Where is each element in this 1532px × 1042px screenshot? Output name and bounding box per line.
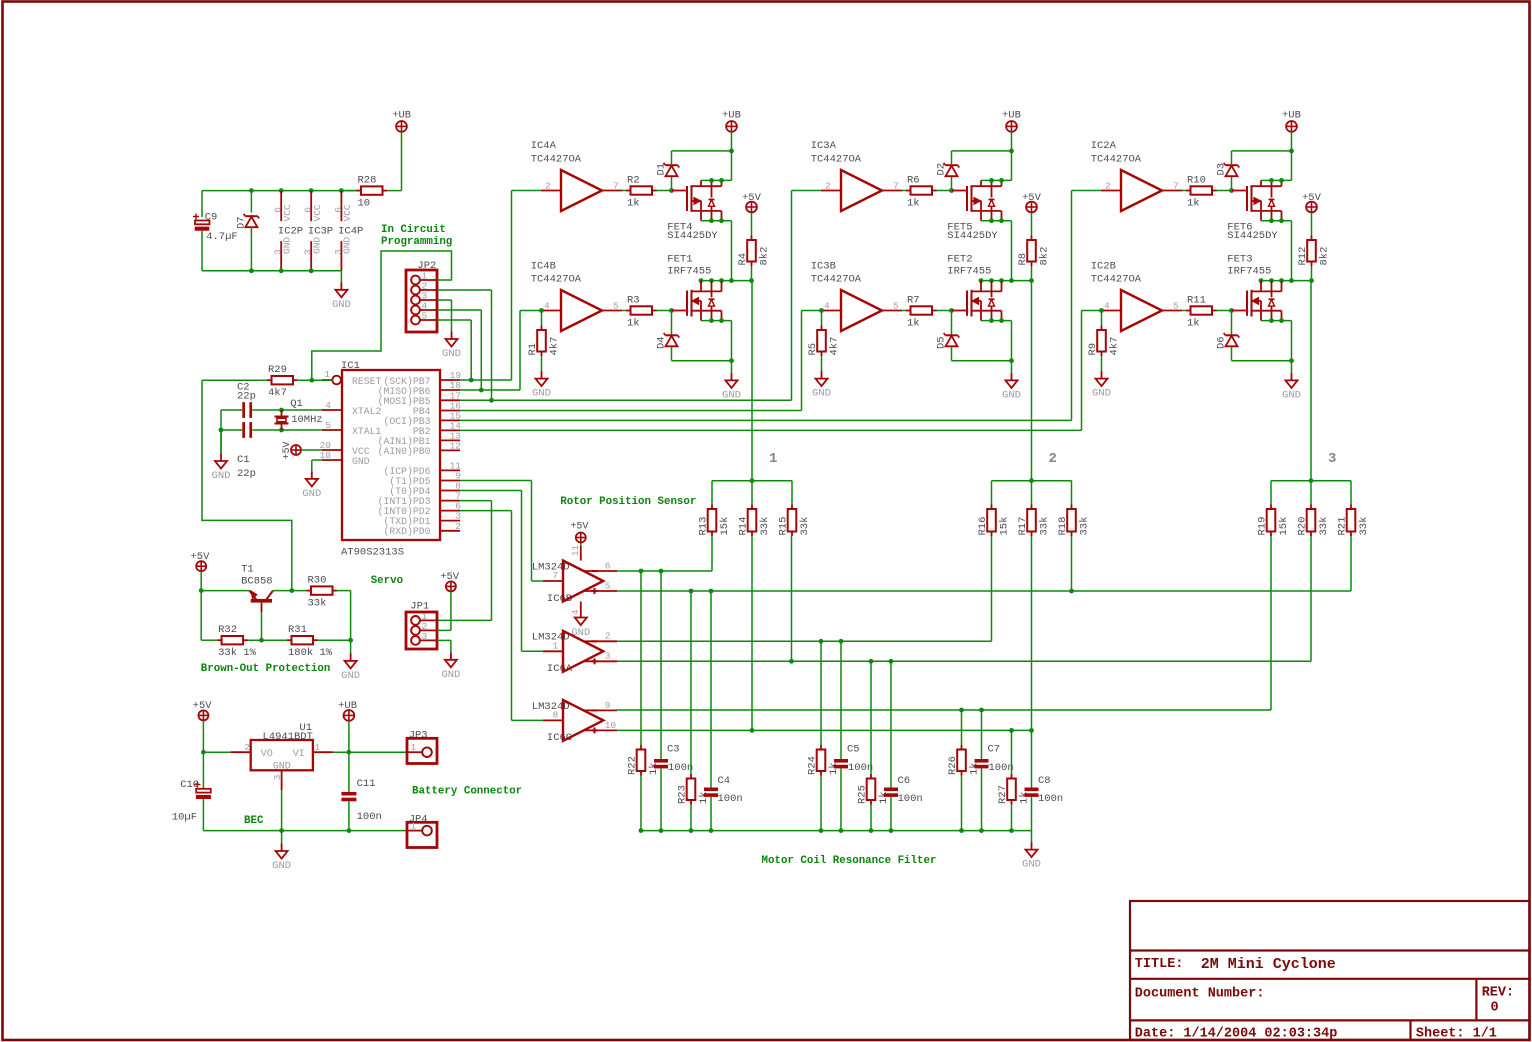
- node gate lower IC3B: [949, 308, 954, 313]
- ground R9: [1092, 371, 1111, 400]
- svg-text:33k: 33k: [799, 517, 811, 536]
- svg-text:4.7µF: 4.7µF: [206, 231, 238, 243]
- svg-text:0: 0: [1491, 1001, 1499, 1016]
- wire filter ground rail: [639, 828, 1032, 833]
- svg-text:6: 6: [605, 560, 611, 571]
- wire pin7 to JP1 pin1: [437, 501, 492, 621]
- wire T1 base to divider: [259, 612, 264, 643]
- svg-text:R6: R6: [907, 174, 920, 186]
- ground FET3: [1282, 373, 1301, 402]
- wire JP2 pin1 to RESET net: [312, 251, 452, 380]
- svg-text:VO: VO: [261, 749, 273, 760]
- svg-text:D3: D3: [1216, 163, 1228, 176]
- wire IC6B inverting input net pin6: [617, 536, 712, 573]
- svg-text:GND: GND: [1092, 388, 1111, 400]
- resistor R29 4k7: [202, 364, 332, 399]
- wire phase mid rail: [699, 278, 754, 283]
- svg-text:VI: VI: [293, 749, 305, 760]
- svg-text:R24: R24: [807, 756, 819, 775]
- svg-text:1: 1: [553, 640, 559, 651]
- wire C9/D7 to bottom rail: [202, 227, 251, 271]
- svg-text:2: 2: [1049, 451, 1057, 467]
- wire U1 VI to JP3: [333, 750, 407, 755]
- ground BEC: [272, 831, 291, 872]
- svg-text:4: 4: [325, 400, 331, 411]
- capacitor C4 100n: [704, 591, 743, 831]
- label Motor Coil Resonance Filter: [762, 855, 937, 867]
- svg-text:D2: D2: [936, 163, 948, 176]
- label Brown-Out Protection: [201, 663, 331, 675]
- svg-text:GND: GND: [1002, 389, 1021, 401]
- resistor R23 1k: [677, 591, 711, 831]
- ground JP1: [441, 652, 460, 681]
- capacitor C9 4.7uF: [193, 211, 238, 243]
- svg-text:FET3: FET3: [1227, 253, 1252, 265]
- svg-text:2: 2: [545, 181, 551, 192]
- resistor R13 15k: [698, 505, 732, 537]
- title text Sheet: 1/1: [1416, 1027, 1497, 1042]
- svg-text:1: 1: [315, 742, 321, 753]
- svg-text:3: 3: [273, 249, 284, 255]
- wire U1 GND pin3 to rail: [279, 790, 284, 833]
- wire PB2 net pin14 to IC2B: [460, 311, 1101, 431]
- transistor FET1 IRF7455 n-channel: [667, 253, 721, 320]
- node input IC3B: [819, 308, 824, 313]
- svg-text:IRF7455: IRF7455: [667, 266, 711, 278]
- power +UB FET4: [722, 110, 741, 151]
- svg-text:R30: R30: [308, 574, 327, 586]
- svg-text:GND: GND: [212, 470, 231, 482]
- title block outline: [1130, 901, 1530, 1040]
- resistor R3 1k: [622, 294, 672, 329]
- resistor R5 4k7 input pulldown: [807, 311, 841, 372]
- gate driver IC3B TC4427OA: [811, 261, 902, 331]
- svg-text:GND: GND: [341, 670, 360, 682]
- wire D5 to ground rail: [952, 358, 1014, 372]
- transistor FET2 IRF7455 n-channel: [947, 253, 1001, 320]
- resistor R7 1k: [902, 294, 952, 329]
- capacitor C3 100n: [654, 571, 693, 831]
- label phase 3: [1328, 451, 1336, 467]
- resistor R12 8k2: [1297, 236, 1331, 281]
- svg-text:(AIN0)PB0: (AIN0)PB0: [378, 446, 431, 457]
- gate driver IC3A TC4427OA: [811, 140, 902, 211]
- svg-text:REV:: REV:: [1482, 986, 1514, 1001]
- svg-text:1k: 1k: [1019, 791, 1031, 804]
- svg-text:R16: R16: [977, 517, 989, 536]
- svg-text:+5V: +5V: [570, 521, 588, 532]
- svg-text:Brown-Out Protection: Brown-Out Protection: [201, 663, 331, 675]
- transistor FET4 SI4425DY p-channel: [667, 180, 721, 242]
- svg-text:33k 1%: 33k 1%: [218, 647, 257, 659]
- ground R5: [812, 371, 831, 400]
- svg-text:9: 9: [605, 700, 611, 711]
- wire +UB rail FET4: [672, 149, 734, 181]
- svg-text:R19: R19: [1257, 517, 1269, 536]
- crystal Q1 10MHz: [275, 398, 323, 430]
- svg-text:IC4A: IC4A: [531, 140, 557, 152]
- power pins IC2P VCC/GND: [273, 191, 304, 271]
- svg-text:IC4B: IC4B: [531, 261, 556, 273]
- connector JP3: [407, 729, 437, 763]
- wire phase mid rail: [1259, 278, 1314, 283]
- svg-text:1k: 1k: [907, 317, 920, 329]
- resistor R10 1k: [1182, 174, 1232, 209]
- svg-text:+UB: +UB: [392, 110, 411, 122]
- wire MOSI net pin17 to IC3A: [460, 191, 821, 403]
- resistor R1 4k7 input pulldown: [527, 311, 561, 372]
- svg-text:GND: GND: [812, 388, 831, 400]
- wire sensor rail 3: [1271, 478, 1351, 504]
- svg-text:SI4425DY: SI4425DY: [667, 230, 718, 242]
- wire RESET net to brown-out: [202, 380, 292, 590]
- svg-text:7: 7: [1173, 181, 1179, 192]
- op-amp IC6B LM324D: [532, 521, 617, 639]
- svg-text:8: 8: [553, 709, 559, 720]
- transistor FET6 SI4425DY p-channel: [1227, 180, 1281, 242]
- svg-text:GND: GND: [1022, 859, 1041, 871]
- svg-text:10µF: 10µF: [172, 812, 197, 824]
- svg-text:22p: 22p: [237, 390, 256, 402]
- svg-text:TC4427OA: TC4427OA: [1091, 154, 1142, 166]
- svg-text:1k: 1k: [907, 197, 920, 209]
- title text Document Number: [1135, 987, 1265, 1002]
- label Battery Connector: [412, 785, 522, 797]
- svg-text:3: 3: [605, 651, 611, 662]
- resistor R20 33k: [1297, 505, 1331, 537]
- wire VCC top rail: [202, 188, 361, 217]
- svg-text:8k2: 8k2: [1039, 247, 1051, 266]
- svg-text:100n: 100n: [718, 793, 743, 805]
- node input IC4B: [539, 308, 544, 313]
- connector JP2: [406, 260, 437, 332]
- svg-text:XTAL2: XTAL2: [352, 406, 382, 417]
- svg-text:GND: GND: [332, 299, 351, 311]
- resistor R21 33k: [1337, 505, 1371, 537]
- svg-text:FET2: FET2: [947, 253, 972, 265]
- svg-text:GND: GND: [302, 488, 321, 500]
- transistor T1 BC858 pnp: [201, 564, 273, 612]
- IC1 left pin names: [352, 376, 382, 467]
- label phase 1: [769, 451, 777, 467]
- svg-text:+5V: +5V: [1302, 192, 1322, 204]
- svg-text:6: 6: [273, 207, 284, 213]
- diode D5: [936, 311, 960, 361]
- capacitor C7 100n: [975, 710, 1014, 831]
- IC1 pin 1 RESET with bubble: [322, 369, 341, 384]
- resistor R22 1k: [627, 571, 661, 831]
- title text REV: 0: [1482, 986, 1514, 1016]
- svg-text:+UB: +UB: [722, 110, 741, 122]
- svg-text:IC3P: IC3P: [308, 226, 333, 238]
- svg-text:BEC: BEC: [244, 815, 264, 827]
- svg-text:R18: R18: [1057, 517, 1069, 536]
- svg-text:Document Number:: Document Number:: [1135, 987, 1265, 1002]
- svg-text:GND: GND: [272, 860, 291, 872]
- svg-text:R14: R14: [738, 517, 750, 536]
- svg-text:IC2B: IC2B: [1091, 261, 1116, 273]
- svg-text:2M Mini Cyclone: 2M Mini Cyclone: [1201, 956, 1336, 973]
- IC1 left pins 4 5 20 10: [320, 400, 342, 461]
- svg-text:Programming: Programming: [381, 236, 452, 248]
- svg-text:R15: R15: [778, 517, 790, 536]
- label Servo: [371, 575, 403, 587]
- svg-text:2: 2: [825, 181, 831, 192]
- svg-text:+UB: +UB: [1002, 110, 1021, 122]
- svg-text:IC3A: IC3A: [811, 140, 837, 152]
- capacitor C1 22p: [237, 422, 256, 480]
- wire JP2 pin5 to SCK net: [437, 320, 471, 380]
- svg-text:C11: C11: [357, 778, 376, 790]
- power +5V pullup R4: [742, 192, 762, 236]
- wire JP2 pin3 to ground: [437, 300, 452, 331]
- svg-text:R10: R10: [1187, 174, 1206, 186]
- wire FET6 source rail: [1261, 178, 1292, 183]
- wire D6 to ground rail: [1232, 358, 1294, 372]
- resistor R11 1k: [1182, 294, 1232, 329]
- svg-text:T1: T1: [241, 564, 254, 576]
- svg-text:1k: 1k: [698, 791, 710, 804]
- svg-text:R32: R32: [218, 624, 237, 636]
- capacitor C2 22p: [237, 382, 256, 418]
- wire IC6C inverting input net pin9: [617, 536, 1271, 712]
- svg-text:C1: C1: [237, 454, 250, 466]
- wire T1 collector node: [273, 588, 311, 593]
- wire FET4 source rail: [701, 178, 732, 183]
- svg-text:10: 10: [605, 720, 617, 731]
- wire MISO net pin18 to IC4B: [460, 311, 541, 393]
- wire SCK net pin19 to IC4A: [460, 191, 541, 383]
- svg-text:1k: 1k: [969, 762, 981, 775]
- svg-text:Motor Coil Resonance Filter: Motor Coil Resonance Filter: [762, 855, 937, 867]
- svg-text:4: 4: [1104, 301, 1110, 312]
- svg-text:Rotor Position Sensor: Rotor Position Sensor: [560, 496, 696, 508]
- wire +5V to R32: [201, 591, 217, 641]
- svg-text:5: 5: [893, 301, 899, 312]
- resistor R8 8k2: [1017, 236, 1051, 281]
- resistor R14 33k: [738, 505, 772, 537]
- capacitor C5 100n: [834, 641, 873, 830]
- svg-text:GND: GND: [532, 388, 551, 400]
- title text TITLE: 2M Mini Cyclone: [1135, 956, 1336, 973]
- ground filter rail: [1022, 831, 1041, 871]
- svg-text:Sheet: 1/1: Sheet: 1/1: [1416, 1027, 1497, 1042]
- capacitor C11 100n: [341, 752, 381, 830]
- resistor R32 33k 1%: [217, 624, 287, 659]
- svg-text:R22: R22: [627, 756, 639, 775]
- wire +5V to U1 VO: [203, 751, 230, 753]
- resistor R28 10: [345, 174, 402, 209]
- svg-text:7: 7: [613, 181, 619, 192]
- label phase 2: [1049, 451, 1057, 467]
- svg-text:R21: R21: [1337, 517, 1349, 536]
- svg-text:TC4427OA: TC4427OA: [531, 274, 582, 286]
- svg-text:C10: C10: [180, 779, 199, 791]
- svg-text:1k: 1k: [648, 762, 660, 775]
- ground FET2: [1002, 373, 1021, 402]
- capacitor C8 100n: [1025, 730, 1064, 830]
- svg-text:R9: R9: [1087, 343, 1099, 356]
- wire FET4 drain rail: [701, 218, 732, 280]
- ground brown-out: [341, 640, 360, 682]
- svg-text:R11: R11: [1187, 294, 1206, 306]
- svg-text:FET1: FET1: [667, 253, 692, 265]
- svg-text:6: 6: [333, 207, 344, 213]
- power +UB FET6: [1282, 110, 1301, 151]
- transistor FET5 SI4425DY p-channel: [947, 180, 1001, 242]
- svg-text:5: 5: [605, 580, 611, 591]
- svg-text:4k7: 4k7: [1109, 337, 1121, 356]
- svg-text:TC4427OA: TC4427OA: [811, 154, 862, 166]
- svg-text:GND: GND: [1282, 389, 1301, 401]
- svg-text:R29: R29: [268, 364, 287, 376]
- IC IC1 AT90S2313S body: [341, 360, 440, 559]
- svg-text:+5V: +5V: [742, 192, 762, 204]
- resistor R6 1k: [902, 174, 952, 209]
- svg-text:4: 4: [544, 301, 550, 312]
- node gate lower IC4B: [669, 308, 674, 313]
- svg-text:1k: 1k: [627, 317, 640, 329]
- wire JP2 pin4 to MISO net: [437, 310, 481, 390]
- svg-text:3: 3: [303, 249, 314, 255]
- ground JP2: [442, 331, 461, 360]
- svg-text:Battery Connector: Battery Connector: [412, 785, 522, 797]
- capacitor C6 100n: [884, 661, 923, 830]
- svg-text:R4: R4: [737, 253, 749, 266]
- power +5V BEC: [193, 700, 213, 755]
- svg-text:AT90S2313S: AT90S2313S: [341, 547, 404, 559]
- power +5V at IC1 VCC: [282, 441, 322, 459]
- ground XTAL caps: [212, 430, 231, 482]
- svg-text:+UB: +UB: [338, 700, 357, 712]
- svg-text:D7: D7: [236, 216, 248, 229]
- wire IC6A inverting input net pin2: [617, 536, 992, 644]
- svg-text:15k: 15k: [999, 517, 1011, 536]
- transistor FET3 IRF7455 n-channel: [1227, 253, 1281, 320]
- svg-text:C3: C3: [667, 744, 680, 756]
- diode D4: [656, 311, 680, 361]
- resistor R31 180k 1%: [287, 624, 353, 659]
- svg-text:1k: 1k: [878, 791, 890, 804]
- resistor R18 33k: [1057, 505, 1091, 537]
- wire IC6B noninverting input net pin5: [617, 536, 1351, 593]
- capacitor C10 10uF: [172, 752, 211, 830]
- svg-text:R31: R31: [288, 624, 307, 636]
- svg-text:Q1: Q1: [290, 398, 303, 410]
- svg-text:180k 1%: 180k 1%: [288, 647, 333, 659]
- svg-text:5: 5: [613, 301, 619, 312]
- gate driver IC2B TC4427OA: [1091, 261, 1182, 331]
- wire pin8 to IC6A output: [460, 491, 543, 652]
- svg-text:100n: 100n: [1038, 793, 1063, 805]
- power +5V pullup R8: [1022, 192, 1042, 236]
- svg-text:22p: 22p: [237, 468, 256, 480]
- svg-text:C4: C4: [718, 775, 731, 787]
- wire sensor rail 2: [992, 478, 1072, 504]
- svg-text:IC4P: IC4P: [338, 226, 363, 238]
- node gate upper IC3A: [949, 188, 954, 193]
- connector JP4: [407, 813, 437, 847]
- svg-text:1: 1: [769, 451, 777, 467]
- resistor R25 1k: [857, 661, 891, 830]
- svg-text:100n: 100n: [989, 762, 1014, 774]
- power pins IC4P VCC/GND: [333, 191, 364, 271]
- svg-text:1: 1: [324, 369, 330, 380]
- ground R1: [532, 371, 551, 400]
- svg-text:33k: 33k: [1039, 517, 1051, 536]
- diode D2: [936, 151, 960, 191]
- svg-text:2: 2: [244, 742, 250, 753]
- svg-text:5: 5: [325, 420, 331, 431]
- svg-text:100n: 100n: [898, 793, 923, 805]
- svg-text:R12: R12: [1297, 247, 1309, 266]
- op-amp IC6A LM324D: [532, 631, 617, 675]
- wire FET1 source rail: [701, 318, 732, 361]
- svg-text:R17: R17: [1017, 517, 1029, 536]
- svg-text:+5V: +5V: [282, 441, 293, 459]
- svg-text:C9: C9: [205, 211, 218, 223]
- svg-text:1: 1: [411, 821, 417, 832]
- svg-text:2: 2: [605, 631, 611, 642]
- svg-text:IC2P: IC2P: [278, 226, 303, 238]
- svg-text:33k: 33k: [759, 517, 771, 536]
- node gate upper IC2A: [1229, 188, 1234, 193]
- svg-text:4k7: 4k7: [829, 337, 841, 356]
- svg-text:R28: R28: [358, 174, 377, 186]
- power +UB top-left: [392, 110, 411, 191]
- svg-text:L4941BDT: L4941BDT: [263, 731, 313, 743]
- svg-text:IRF7455: IRF7455: [947, 266, 991, 278]
- svg-text:4k7: 4k7: [268, 387, 287, 399]
- connector JP1: [406, 601, 437, 650]
- svg-text:IC2A: IC2A: [1091, 140, 1117, 152]
- wire XTAL2 pin4 net: [221, 408, 322, 430]
- wire sensor rail 1: [712, 478, 792, 504]
- svg-text:R7: R7: [907, 294, 920, 306]
- svg-text:GND: GND: [441, 669, 460, 681]
- ground IC1 pin10: [302, 471, 321, 500]
- svg-text:GND: GND: [352, 456, 370, 467]
- svg-text:C7: C7: [988, 744, 1001, 756]
- svg-text:7: 7: [553, 570, 559, 581]
- svg-text:D6: D6: [1216, 336, 1228, 349]
- svg-text:10: 10: [358, 197, 371, 209]
- resistor R19 15k: [1257, 505, 1291, 537]
- ground FET1: [722, 373, 741, 402]
- svg-text:1k: 1k: [627, 197, 640, 209]
- svg-text:R2: R2: [627, 174, 640, 186]
- svg-text:R13: R13: [698, 517, 710, 536]
- wire pin6 to IC6C output: [460, 511, 543, 721]
- wire PB4 net pin16 to IC3B: [460, 311, 821, 411]
- title text Date: [1135, 1027, 1338, 1042]
- wire FET6 drain rail: [1261, 218, 1292, 280]
- svg-text:1k: 1k: [1187, 317, 1200, 329]
- svg-text:10MHz: 10MHz: [291, 414, 323, 426]
- resistor R24 1k: [807, 641, 841, 830]
- svg-text:4k7: 4k7: [549, 337, 561, 356]
- wire D4 to ground rail: [672, 358, 734, 372]
- svg-text:BC858: BC858: [241, 576, 273, 588]
- svg-text:D5: D5: [936, 336, 948, 349]
- resistor R27 1k: [997, 730, 1031, 830]
- svg-text:15k: 15k: [719, 517, 731, 536]
- wire FET2 source rail: [981, 318, 1012, 361]
- svg-text:5: 5: [422, 311, 428, 322]
- resistor R4 8k2: [737, 236, 771, 281]
- wire +UB rail FET5: [952, 149, 1014, 181]
- svg-text:15k: 15k: [1278, 517, 1290, 536]
